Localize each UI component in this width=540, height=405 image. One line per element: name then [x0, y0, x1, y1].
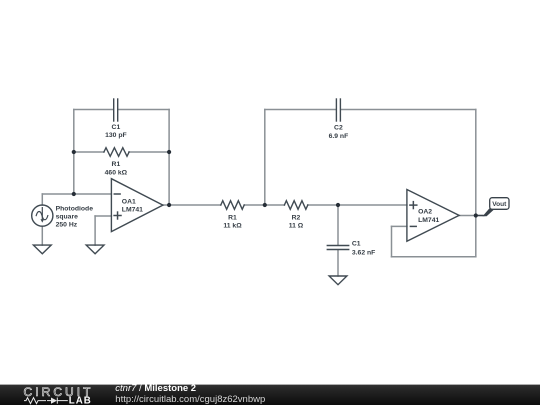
capacitor C1 130 pF plates	[114, 99, 118, 121]
label C2 6.9 nF	[329, 125, 349, 140]
junction dot: OA1 output node	[167, 203, 171, 207]
svg-text:ctnr7 / Milestone 2: ctnr7 / Milestone 2	[115, 383, 196, 394]
resistor R2 11 Ohm zigzag	[284, 201, 307, 210]
junction dot: R2 output node to C1	[336, 203, 340, 207]
svg-text:R1: R1	[112, 161, 121, 168]
svg-text:C2: C2	[334, 125, 343, 132]
node Vout flag	[476, 198, 509, 217]
wire: OA2 feedback bottom horizontal	[392, 256, 476, 258]
wire: R1 460k right lead	[129, 151, 169, 153]
svg-text:C1: C1	[352, 241, 361, 248]
label R2 11 Ohm	[289, 215, 304, 230]
CircuitLab logo doodle resistor and diode	[24, 398, 68, 404]
op-amp OA2 triangle	[407, 190, 459, 242]
wire: right vertical from C2 to OA2 feedback bottom	[475, 110, 477, 257]
resistor R1 460 kOhm zigzag	[104, 148, 129, 157]
label OA1 LM741	[122, 198, 143, 213]
svg-text:LM741: LM741	[418, 217, 439, 224]
svg-text:3.62 nF: 3.62 nF	[352, 250, 375, 257]
junction dot: feedback right at R1 row	[167, 150, 171, 154]
wire: R1 11k to R2 junction	[244, 204, 284, 206]
svg-text:Vout: Vout	[492, 201, 507, 208]
wire: photodiode top vertical	[41, 194, 43, 205]
wire: OA1 non-inverting input to ground (horizontal)	[95, 215, 111, 217]
wire: OA2 feedback left vertical	[391, 226, 393, 256]
label R1 11 kOhm	[223, 215, 242, 230]
svg-text:R2: R2	[292, 215, 301, 222]
op-amp OA2 minus sign	[410, 225, 416, 227]
op-amp OA1 triangle	[111, 179, 162, 232]
junction dot: feedback left at R1 row	[72, 150, 76, 154]
svg-text:Photodiode: Photodiode	[56, 206, 94, 213]
photodiode source waveform and arrow	[36, 208, 48, 223]
wire: C2 branch vertical up	[264, 110, 266, 206]
svg-text:LAB: LAB	[69, 396, 92, 405]
junction dot: OA2 output node	[474, 213, 478, 217]
label R1 460 kOhm	[105, 161, 128, 176]
wire: OA2 output	[459, 215, 484, 217]
capacitor C2 6.9 nF plates	[336, 99, 340, 121]
svg-text:130 pF: 130 pF	[105, 132, 127, 139]
svg-text:11 kΩ: 11 kΩ	[223, 223, 242, 230]
photodiode source circle	[32, 205, 53, 226]
svg-text:C1: C1	[112, 124, 121, 131]
svg-text:square: square	[56, 214, 79, 221]
wire: photodiode bottom to ground	[41, 226, 43, 245]
label OA2 LM741	[418, 209, 439, 224]
label Photodiode square 250 Hz	[56, 206, 94, 229]
wire: C1 to feedback loop top right	[118, 109, 169, 111]
svg-text:6.9 nF: 6.9 nF	[329, 133, 349, 140]
svg-text:http://circuitlab.com/cguj8z62: http://circuitlab.com/cguj8z62vnbwp	[115, 394, 265, 405]
resistor R1 11 kOhm zigzag	[221, 201, 244, 210]
label C1 130 pF	[105, 124, 127, 139]
wire: C2 top wire right	[341, 109, 476, 111]
wire: C2 top wire left	[265, 109, 336, 111]
capacitor C1 3.62 nF plates	[327, 246, 348, 250]
ground under OA1 plus input	[86, 245, 104, 254]
svg-text:OA1: OA1	[122, 198, 136, 205]
wire: feedback loop left vertical	[73, 110, 75, 195]
svg-text:LM741: LM741	[122, 206, 143, 213]
footer bar	[0, 385, 540, 405]
svg-text:OA2: OA2	[418, 209, 432, 216]
wire: R2 to OA2 non-inverting input	[308, 204, 407, 206]
wire: feedback loop top left to C1	[74, 109, 113, 111]
ground under photodiode	[33, 245, 51, 254]
wire: photodiode top to OA1 inverting input (y=194)	[42, 193, 111, 195]
svg-text:R1: R1	[228, 215, 237, 222]
junction dot: R1-R2 node to C2	[263, 203, 267, 207]
op-amp OA1 plus sign	[114, 212, 121, 219]
wire: R1 460k left lead	[74, 151, 104, 153]
junction dot: inverting input node	[72, 192, 76, 196]
wire: OA1 non-inverting input to ground (vertical)	[94, 216, 96, 245]
label C1 3.62 nF	[352, 241, 375, 257]
wire: OA1 output to R1 11k	[163, 204, 221, 206]
wire: C1 3.62n branch top vertical	[337, 205, 339, 245]
ground under C1 3.62 nF	[329, 276, 347, 285]
svg-text:250 Hz: 250 Hz	[56, 222, 78, 229]
wire: OA2 inverting input horizontal	[392, 225, 407, 227]
svg-text:460 kΩ: 460 kΩ	[105, 169, 128, 176]
op-amp OA2 plus sign	[410, 202, 417, 209]
svg-text:11 Ω: 11 Ω	[289, 223, 304, 230]
op-amp OA1 minus sign	[114, 193, 120, 195]
wire: feedback loop right vertical	[168, 110, 170, 206]
wire: C1 3.62n bottom to ground	[337, 250, 339, 276]
